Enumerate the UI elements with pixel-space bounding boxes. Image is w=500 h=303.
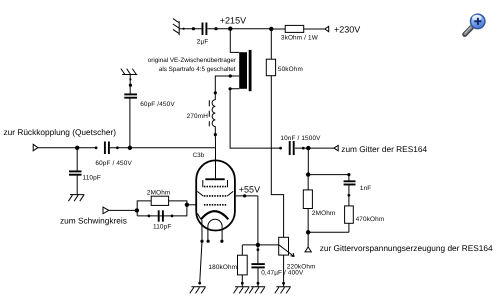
inductor 270mH [187,93,217,136]
svg-text:als Spartrafo 4:5 geschaltet: als Spartrafo 4:5 geschaltet [159,66,236,73]
wire node B down to R 50kOhm [270,29,272,59]
node J (grid wire) [185,203,189,207]
wire node H up to 60pF/450V vertical cap [129,98,131,148]
wire node +215V down to transformer top tap [230,29,239,53]
node H (60pF to ground branch) [128,146,132,150]
svg-text:+215V: +215V [220,15,246,25]
transformer T1 core bar [249,50,252,91]
capacitor 60pF/450V (vertical, to top ground) [124,75,175,108]
node B (50kOhm branch) [269,27,273,31]
wire 10nF to zum Gitter arrow [295,147,334,149]
transformer annotation text [148,57,236,73]
ground G2 [234,287,250,294]
svg-text:zur Rückkopplung (Quetscher): zur Rückkopplung (Quetscher) [4,127,117,137]
wire arrow to node I [109,209,137,211]
svg-text:110pF: 110pF [83,174,101,181]
wire +215V node to node B [230,28,271,30]
tube grid g3 [203,180,228,187]
svg-text:2MOhm: 2MOhm [147,190,170,197]
wire pot to ground G4 [282,255,285,287]
grid RC loop wires [137,201,187,216]
wire transformer middle tap to inductor [214,74,240,94]
ground G5 [68,195,84,202]
connector arrow zum Gitter der RES164 [334,144,427,154]
svg-text:470kOhm: 470kOhm [356,216,385,223]
capacitor 2uF [197,23,209,46]
wire +55V down to node F [257,196,259,245]
wire inductor to anode node [214,135,216,148]
node E [306,230,310,234]
wire node E down to connector [307,232,309,247]
svg-text:zum Schwingkreis: zum Schwingkreis [60,216,127,226]
tube cathode lead [198,220,203,285]
tube grid g2 [197,191,233,196]
svg-text:1nF: 1nF [360,185,371,192]
svg-text:50kOhm: 50kOhm [278,66,303,73]
wire node C down to node D [307,148,309,175]
connector arrow +230V [325,25,360,35]
svg-text:60pF / 450V: 60pF / 450V [95,160,132,167]
wire node F row [242,244,278,246]
tube C3b envelope [196,160,235,230]
tube heater [207,219,224,243]
capacitor 110pF (left, to ground) [69,148,101,195]
node D [306,172,310,176]
wire ground to C 2uF [179,28,201,30]
svg-text:C3b: C3b [193,152,205,159]
wire 60pF to anode node [110,147,216,149]
wire node B to R 3kOhm [271,28,285,30]
svg-text:180kOhm: 180kOhm [208,264,237,271]
tube grid g1 [204,204,227,206]
svg-text:0,47µF / 400V: 0,47µF / 400V [261,270,304,277]
resistor 180kOhm [208,245,247,287]
resistor 50kOhm [266,59,303,75]
svg-text:zum Gitter der RES164: zum Gitter der RES164 [341,144,427,154]
svg-text:270mH: 270mH [187,113,209,120]
capacitor 1nF [344,175,372,192]
wire R 3kOhm to +230V arrow [304,28,325,30]
svg-text:2µF: 2µF [197,39,209,46]
ground G1 [190,287,206,294]
node +215V [220,15,246,31]
ground GND1 (top left) [173,19,179,36]
ground G3 [249,287,265,294]
svg-text:+55V: +55V [239,185,260,195]
wire screen grid to +55V node [236,185,260,198]
capacitor 10nF/1500V [279,135,321,155]
wire node J to tube grid [187,204,196,206]
resistor 470kOhm [345,206,385,223]
resistor 2MOhm (grid leak) [147,190,170,206]
connector arrow zur Rueckkopplung [4,127,117,151]
resistor 3kOhm/1W [281,25,319,41]
magnifier icon [465,14,486,35]
wire arrow to node G [38,147,96,149]
capacitor 0,47uF/400V [251,245,304,287]
wire C 2uF to node +215V [207,27,230,30]
connector triangle zur Gittervorspannungserzeugung [305,243,493,253]
tube anode lead [215,148,217,179]
svg-text:zur Gittervorspannungserzeugun: zur Gittervorspannungserzeugung der RES1… [320,243,493,253]
svg-text:original VE-Zwischenübertrager: original VE-Zwischenübertrager [148,57,236,64]
svg-text:60pF /450V: 60pF /450V [140,101,175,108]
capacitor 60pF/450V (series) [95,142,133,168]
svg-text:2MOhm: 2MOhm [312,210,335,217]
wire transformer bottom tap down and right [229,87,281,148]
svg-text:+230V: +230V [334,25,360,35]
node I (grid RC) [135,208,139,212]
wire 470kOhm to node E [348,223,350,232]
wire node D right to 1nF branch [308,173,350,176]
resistor 2MOhm (right) [303,175,335,233]
node G (110pF branch) [75,146,79,150]
svg-text:3kOhm / 1W: 3kOhm / 1W [281,35,319,42]
tube cathode [197,211,228,219]
svg-text:110pF: 110pF [153,224,171,231]
wire 1nF to R 470kOhm [348,185,351,206]
wire 50kOhm down to potentiometer top [271,76,283,238]
node C (RES164 grid line) [306,146,310,150]
capacitor 110pF (grid) [148,210,174,230]
potentiometer 220kOhm [279,237,316,270]
ground G6 (inverted, top) [121,69,137,75]
svg-text:10nF / 1500V: 10nF / 1500V [280,135,321,142]
transformer T1 winding (solid) [239,52,247,89]
node F [256,243,260,247]
ground G4 [275,287,291,294]
tube anode plate [205,178,224,180]
connector arrow zum Schwingkreis [60,207,127,226]
